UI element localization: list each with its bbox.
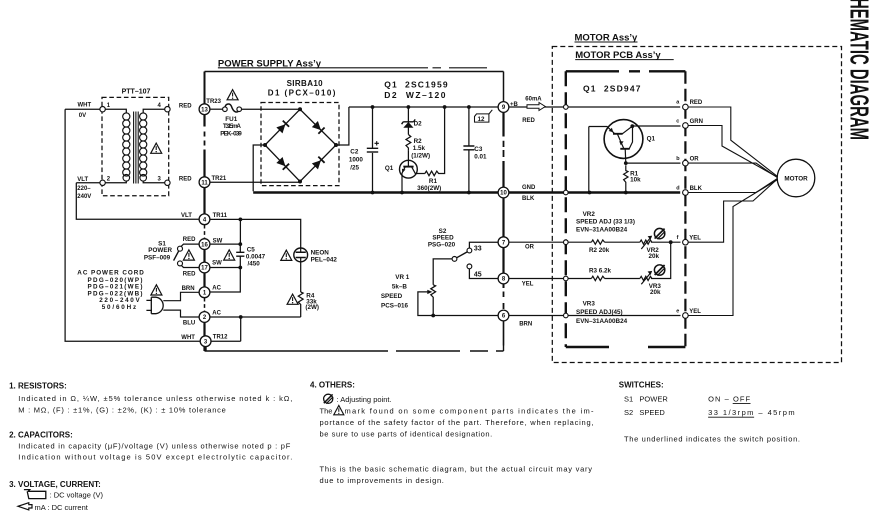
svg-text:Indication without voltage: Indication without voltage is 50V except… xyxy=(18,453,292,462)
svg-text:RED: RED xyxy=(183,237,196,243)
svg-text:RED: RED xyxy=(179,176,192,182)
svg-text:2. CAPACITORS:: 2. CAPACITORS: xyxy=(9,431,73,440)
svg-text:240V: 240V xyxy=(77,194,91,200)
svg-text:D2 WZ–120: D2 WZ–120 xyxy=(384,90,446,100)
svg-text:WHT: WHT xyxy=(181,335,195,341)
svg-text:c: c xyxy=(676,118,679,124)
svg-text:: Adjusting point.: : Adjusting point. xyxy=(337,395,392,404)
svg-text:Indicated in Ω, ¼W, ±5% t: Indicated in Ω, ¼W, ±5% tolerance unless… xyxy=(18,394,292,403)
svg-text:OR: OR xyxy=(690,156,700,162)
svg-text:VR2: VR2 xyxy=(583,211,596,218)
svg-text:BRN: BRN xyxy=(182,286,195,292)
svg-text:220–: 220– xyxy=(77,186,91,192)
svg-text:MOTOR: MOTOR xyxy=(784,175,808,182)
svg-text:1000: 1000 xyxy=(349,157,364,164)
svg-text:5k–B: 5k–B xyxy=(392,284,408,291)
svg-text:R2 20k: R2 20k xyxy=(589,247,610,254)
svg-text:0.01: 0.01 xyxy=(474,153,487,160)
svg-text:ON – OFF: ON – OFF xyxy=(708,395,750,404)
svg-text:GRN: GRN xyxy=(690,119,703,125)
svg-text:e: e xyxy=(676,308,679,314)
svg-text:BLK: BLK xyxy=(522,196,535,202)
svg-text:WHT: WHT xyxy=(78,102,92,108)
svg-text:SW: SW xyxy=(213,238,223,244)
svg-text:10k: 10k xyxy=(630,177,641,184)
svg-text:PSF–009: PSF–009 xyxy=(144,254,171,261)
svg-text:SWITCHES:: SWITCHES: xyxy=(619,380,664,389)
svg-text:f: f xyxy=(677,235,679,241)
svg-text:SPEED: SPEED xyxy=(381,293,403,300)
svg-text:TR12: TR12 xyxy=(213,335,228,341)
svg-text:AC: AC xyxy=(212,310,221,316)
svg-text:3. VOLTAGE, CURRENT:: 3. VOLTAGE, CURRENT: xyxy=(9,480,101,489)
svg-text:10: 10 xyxy=(500,191,507,197)
svg-text:VR 1: VR 1 xyxy=(395,274,409,281)
svg-text:AC POWER CORD: AC POWER CORD xyxy=(77,269,144,276)
svg-text:0.0047: 0.0047 xyxy=(246,253,266,260)
svg-text:20k: 20k xyxy=(650,289,661,296)
svg-text:POWER: POWER xyxy=(148,247,172,254)
svg-text:RED: RED xyxy=(522,118,535,124)
svg-text:13: 13 xyxy=(201,107,208,113)
svg-text:(2W): (2W) xyxy=(305,304,319,311)
svg-text:The: The xyxy=(320,407,333,416)
svg-text:RED: RED xyxy=(183,271,196,277)
svg-text:SPEED ADJ(45): SPEED ADJ(45) xyxy=(576,309,623,316)
svg-text:VR3: VR3 xyxy=(583,301,596,308)
svg-text:EVN–31AA00B24: EVN–31AA00B24 xyxy=(576,227,628,234)
svg-text:RED: RED xyxy=(179,104,192,110)
svg-text:mA : DC current: mA : DC current xyxy=(35,503,89,512)
svg-text:: DC voltage (V): : DC voltage (V) xyxy=(50,490,104,499)
svg-text:60mA: 60mA xyxy=(525,97,542,103)
svg-text:11: 11 xyxy=(201,180,208,186)
svg-text:45: 45 xyxy=(474,271,482,278)
svg-text:VLT: VLT xyxy=(77,177,88,183)
svg-text:BRN: BRN xyxy=(519,321,532,327)
svg-text:C2: C2 xyxy=(350,148,359,155)
svg-text:50/60Hz: 50/60Hz xyxy=(102,304,137,311)
svg-text:Indicated in capacity (μF)/vol: Indicated in capacity (μF)/voltage (V) u… xyxy=(18,442,290,451)
svg-text:PEL–042: PEL–042 xyxy=(311,257,338,264)
svg-text:C3: C3 xyxy=(474,146,483,153)
svg-text:BLU: BLU xyxy=(183,321,195,327)
svg-text:YEL: YEL xyxy=(689,236,701,242)
svg-text:portance of the safety factor: portance of the safety factor of the par… xyxy=(320,418,594,427)
svg-text:Q1: Q1 xyxy=(647,135,656,142)
svg-text:This is the basic schematic di: This is the basic schematic diagram, but… xyxy=(320,464,593,473)
svg-text:YEL: YEL xyxy=(522,282,534,288)
svg-text:PSG–020: PSG–020 xyxy=(428,241,456,248)
svg-text:T315mA: T315mA xyxy=(223,123,241,130)
svg-text:R2: R2 xyxy=(414,138,423,145)
svg-text:4. OTHERS:: 4. OTHERS: xyxy=(310,380,355,389)
svg-text:due to improvements in design.: due to improvements in design. xyxy=(320,476,444,485)
svg-text:d: d xyxy=(676,185,679,191)
svg-text:(1/2W): (1/2W) xyxy=(411,152,430,159)
svg-text:TR11: TR11 xyxy=(213,213,228,219)
svg-text:PEK–039: PEK–039 xyxy=(220,130,242,137)
svg-text:Q1 2SC1959: Q1 2SC1959 xyxy=(384,80,448,90)
svg-text:R3 6.2k: R3 6.2k xyxy=(589,268,612,275)
svg-text:PTT–107: PTT–107 xyxy=(122,88,151,95)
svg-text:+B: +B xyxy=(510,102,519,108)
svg-text:/25: /25 xyxy=(350,164,359,171)
svg-text:Q1 2SD947: Q1 2SD947 xyxy=(583,83,641,93)
svg-text:The underlined indicates the s: The underlined indicates the switch posi… xyxy=(624,434,800,443)
svg-text:TR23: TR23 xyxy=(206,99,221,105)
svg-text:POWER SUPPLY Ass’y: POWER SUPPLY Ass’y xyxy=(218,58,322,69)
svg-text:S2 SPEED: S2 SPEED xyxy=(624,408,665,417)
svg-text:12: 12 xyxy=(478,116,486,123)
svg-text:RED: RED xyxy=(690,100,703,106)
svg-text:20k: 20k xyxy=(649,253,660,260)
svg-text:GND: GND xyxy=(522,185,536,191)
svg-text:1.5k: 1.5k xyxy=(413,145,426,152)
svg-text:BLK: BLK xyxy=(690,186,703,192)
svg-text:VLT: VLT xyxy=(181,213,192,219)
svg-text:S1 POWER: S1 POWER xyxy=(624,395,668,404)
svg-text:EVN–31AA00B24: EVN–31AA00B24 xyxy=(576,318,628,325)
svg-text:D2: D2 xyxy=(414,120,423,127)
svg-text:0V: 0V xyxy=(79,113,86,119)
svg-text:TR21: TR21 xyxy=(212,176,227,182)
svg-text:R1: R1 xyxy=(429,178,438,185)
svg-text:16: 16 xyxy=(201,242,208,248)
svg-text:YEL: YEL xyxy=(689,309,701,315)
svg-text:OR: OR xyxy=(525,244,535,250)
svg-text:/450: /450 xyxy=(248,260,261,267)
svg-text:SPEED ADJ (33 1/3): SPEED ADJ (33 1/3) xyxy=(576,219,635,226)
svg-text:33: 33 xyxy=(474,245,482,252)
svg-text:1. RESISTORS:: 1. RESISTORS: xyxy=(9,382,67,391)
svg-text:FU1: FU1 xyxy=(225,116,237,123)
svg-text:mark found on some compone: mark found on some component parts indic… xyxy=(345,407,595,416)
svg-text:SIRBA10: SIRBA10 xyxy=(287,79,324,88)
svg-text:HEMATIC DIAGRAM: HEMATIC DIAGRAM xyxy=(845,0,875,140)
svg-text:AC: AC xyxy=(212,285,221,291)
svg-text:360(2W): 360(2W) xyxy=(417,185,441,192)
svg-text:Q1: Q1 xyxy=(385,165,394,172)
svg-text:SW: SW xyxy=(212,261,222,267)
svg-text:M : MΩ, (F) : ±1%, (G) : ±2%,: M : MΩ, (F) : ±1%, (G) : ±2%, (K) : ± 10… xyxy=(18,405,226,414)
svg-text:17: 17 xyxy=(201,266,208,272)
svg-text:be sure to use parts of identi: be sure to use parts of identical design… xyxy=(320,430,493,439)
svg-text:NEON: NEON xyxy=(311,249,330,256)
svg-text:PCS–016: PCS–016 xyxy=(381,303,408,310)
